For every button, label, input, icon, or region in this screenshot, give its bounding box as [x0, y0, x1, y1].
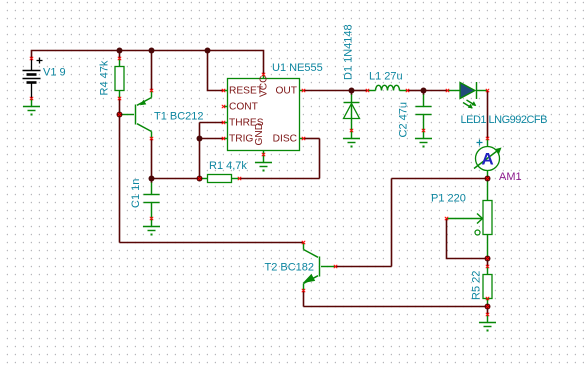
svg-text:C1 1n: C1 1n	[130, 179, 142, 208]
ground (C2)	[415, 131, 432, 148]
LED1	[448, 82, 488, 108]
pin CONT stub	[224, 106, 228, 108]
wire RESET feed from top rail	[208, 51, 224, 91]
resistor R1	[200, 175, 240, 183]
svg-text:DISC: DISC	[273, 134, 297, 145]
capacitor C2	[416, 95, 432, 131]
node top rail / T1 emitter	[149, 48, 155, 54]
pin TRIG stub	[224, 138, 228, 140]
svg-text:OUT: OUT	[275, 86, 297, 97]
wire C2 node to LED anode	[424, 90, 448, 92]
pin THRES stub	[224, 122, 228, 124]
capacitor C1	[144, 183, 160, 219]
pin marks (red x)	[30, 57, 489, 316]
battery V1	[23, 58, 43, 99]
wire THRES/TRIG vertical	[199, 123, 201, 179]
diode D1	[344, 95, 360, 131]
pin VCC stub	[263, 75, 265, 79]
svg-text:L1 27u: L1 27u	[369, 71, 403, 83]
wire D1 node to L1	[352, 90, 368, 92]
wire TRIG horizontal	[200, 138, 224, 140]
svg-text:R1 4,7k: R1 4,7k	[209, 160, 247, 172]
wire DISC horizontal	[304, 138, 320, 140]
svg-text:D1 1N4148: D1 1N4148	[343, 24, 355, 80]
wire D1 stub	[351, 91, 353, 96]
node D1	[349, 88, 355, 94]
wire LED cathode down to ammeter	[487, 91, 489, 139]
ammeter AM1	[474, 139, 502, 179]
wire P1 wiper down	[447, 219, 488, 259]
svg-text:P1 220: P1 220	[431, 193, 466, 205]
pin OUT stub	[300, 90, 304, 92]
ground (R5)	[479, 315, 496, 332]
node top rail / R4	[117, 48, 123, 54]
svg-text:CONT: CONT	[229, 102, 258, 113]
wire T1 collector down to C1 node	[151, 139, 153, 179]
wire P1 bottom node to R5	[487, 259, 489, 267]
wire left vertical from base junction down	[119, 115, 121, 243]
ground (U1 GND)	[255, 155, 272, 172]
wire R1 right to DISC corner	[240, 178, 320, 180]
ground (C1)	[143, 219, 160, 236]
resistor R4	[115, 59, 124, 99]
wire AM1 node to T2 base vertical	[392, 178, 488, 180]
node top rail / RESET	[205, 48, 211, 54]
pin GND stub	[263, 151, 265, 155]
wire R5 bottom node to ground	[487, 307, 489, 315]
node C1	[149, 176, 155, 182]
node R5 bottom	[485, 304, 491, 310]
node R1 left	[197, 176, 203, 182]
node C2	[421, 88, 427, 94]
wire top rail from battery to VCC column	[32, 51, 264, 75]
svg-text:R4 47k: R4 47k	[99, 60, 111, 95]
svg-text:T1 BC212: T1 BC212	[154, 111, 204, 123]
pin DISC stub	[300, 138, 304, 140]
wire T2 emitter down	[303, 291, 305, 307]
transistor T1 BC212	[121, 91, 152, 139]
svg-text:V1 9: V1 9	[43, 67, 66, 79]
resistor R5	[483, 267, 492, 307]
svg-text:AM1: AM1	[499, 171, 522, 183]
pin RESET stub	[224, 90, 228, 92]
inductor L1	[368, 85, 408, 90]
wire R4 top stub	[119, 51, 121, 59]
ground (battery)	[23, 99, 40, 116]
op-amp U1 NE555 IC box	[228, 79, 300, 151]
svg-text:GND: GND	[254, 123, 265, 146]
svg-text:LED1 LNG992CFB: LED1 LNG992CFB	[461, 114, 548, 126]
svg-text:R5 22: R5 22	[471, 271, 483, 300]
wire THRES horizontal	[200, 122, 224, 124]
svg-text:TRIG: TRIG	[229, 134, 253, 145]
svg-text:C2 47u: C2 47u	[398, 102, 410, 137]
wire C2 stub	[423, 91, 425, 96]
node AM1 / P1 top	[485, 176, 491, 182]
wire C1 node stub down	[151, 179, 153, 184]
ground (D1)	[343, 131, 360, 148]
wire L1 to C2 node	[408, 90, 424, 92]
node T1 base	[117, 112, 123, 118]
wire DISC vertical down	[319, 139, 321, 179]
node dots	[117, 48, 491, 310]
svg-text:A: A	[481, 150, 493, 169]
wire T1 emitter feed from top rail	[151, 51, 153, 91]
node TRIG	[197, 136, 203, 142]
svg-text:VCC: VCC	[259, 75, 270, 97]
wire T2 base horizontal	[336, 266, 392, 268]
transistor T2 BC182	[303, 243, 336, 291]
wire C1 node to R1 node	[152, 178, 200, 180]
wire OUT to D1 node	[304, 90, 352, 92]
potentiometer P1	[447, 179, 493, 259]
svg-text:T2 BC182: T2 BC182	[265, 262, 315, 274]
node P1 bottom	[485, 256, 491, 262]
wire T2 emitter to R5 bottom node	[304, 306, 488, 308]
wire bottom-left horizontal to T2 collector	[120, 242, 304, 244]
wire T2 base vertical	[391, 179, 393, 267]
wire R4 bottom to T1 base junction	[119, 99, 121, 115]
svg-text:U1 NE555: U1 NE555	[272, 62, 323, 74]
